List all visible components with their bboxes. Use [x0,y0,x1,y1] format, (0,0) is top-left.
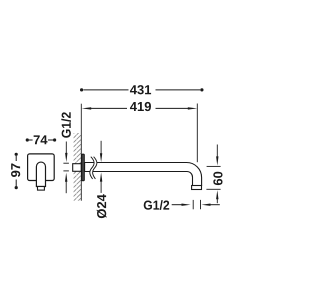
label 97 [11,164,20,177]
wall flange [82,154,85,181]
dimension 74 [26,138,29,141]
nipple bottom tick [63,170,69,172]
arm drop (pill) front view [36,162,45,186]
label D24 [97,194,107,218]
wall face / extension line [80,104,82,201]
dimension D24 [100,141,102,155]
threaded nipple behind wall [73,164,82,172]
label 60 [213,172,222,185]
nipple top tick [63,162,69,164]
dimension 419 [82,107,92,109]
label 74 [34,135,48,144]
wall hatching [74,133,82,201]
label G1/2 top [61,112,71,138]
G1/2 leader arrow [65,142,67,155]
G1/2 lower leader arrow [65,173,67,182]
dimension 60 [216,145,218,157]
label 431 [130,85,151,94]
pipe break squiggle 2 [93,157,97,179]
thread extension lines [192,200,194,209]
outlet nut side view [192,186,202,190]
right extension line [196,104,198,163]
outlet nut front view [38,187,45,191]
pipe break gap [91,157,95,179]
shower arm tube with bend [85,163,202,186]
pipe break squiggle 1 [90,157,94,179]
left pointing arrow at outlet [201,204,210,206]
label G1/2 bottom [144,200,170,210]
label 419 [130,102,151,111]
dimension 97 [15,153,18,156]
G1/2 leader line [172,204,183,206]
dimension 431 [80,88,83,91]
escutcheon plate square [28,154,55,181]
